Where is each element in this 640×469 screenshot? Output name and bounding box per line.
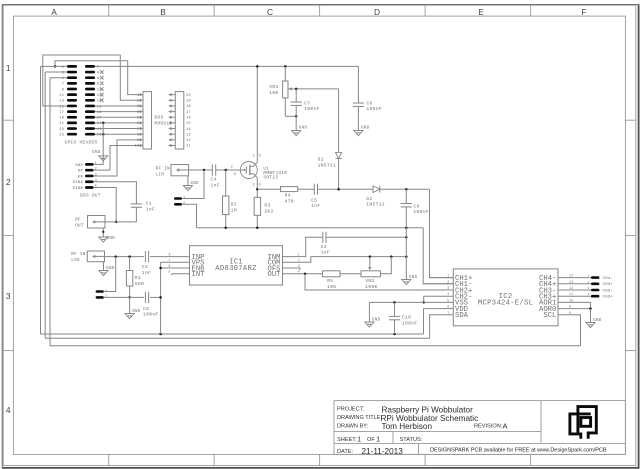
svg-text:OUT: OUT <box>268 271 282 279</box>
svg-text:3: 3 <box>231 166 233 170</box>
svg-text:100nF: 100nF <box>402 320 418 326</box>
svg-text:2: 2 <box>587 281 589 284</box>
svg-text:1nF: 1nF <box>321 250 330 256</box>
svg-text:2K2: 2K2 <box>264 208 273 214</box>
svg-text:VR2: VR2 <box>365 278 374 284</box>
svg-text:DP: DP <box>78 170 84 174</box>
svg-text:100nF: 100nF <box>366 106 382 112</box>
svg-text:RF IN: RF IN <box>71 253 85 257</box>
svg-text:1: 1 <box>6 63 11 73</box>
svg-text:9: 9 <box>137 139 139 143</box>
svg-text:16: 16 <box>186 116 191 120</box>
svg-text:GND: GND <box>372 318 381 322</box>
svg-text:4: 4 <box>6 405 11 415</box>
svg-text:4: 4 <box>298 270 300 274</box>
svg-text:DINA: DINA <box>73 181 84 185</box>
svg-text:GND: GND <box>191 182 200 186</box>
svg-text:GND: GND <box>361 127 370 131</box>
svg-text:7: 7 <box>447 311 449 315</box>
svg-text:A: A <box>503 422 508 431</box>
svg-text:2: 2 <box>6 177 11 187</box>
svg-text:S: S <box>259 184 261 188</box>
svg-text:7: 7 <box>169 258 171 262</box>
svg-text:D: D <box>259 155 261 159</box>
svg-text:D: D <box>374 7 380 17</box>
svg-text:STATUS:: STATUS: <box>400 437 423 443</box>
svg-text:MCP3424-E/SL: MCP3424-E/SL <box>478 300 533 308</box>
svg-text:7: 7 <box>62 83 65 87</box>
svg-text:1: 1 <box>298 253 300 257</box>
svg-text:12: 12 <box>186 139 191 143</box>
svg-text:3: 3 <box>587 287 589 290</box>
svg-text:19: 19 <box>186 100 191 104</box>
svg-text:3: 3 <box>6 291 11 301</box>
svg-text:INT: INT <box>192 271 206 279</box>
svg-text:11: 11 <box>186 145 191 149</box>
svg-text:1N5711: 1N5711 <box>318 162 337 168</box>
svg-text:18: 18 <box>186 105 191 109</box>
svg-text:5: 5 <box>137 116 139 120</box>
svg-text:RF: RF <box>75 219 81 223</box>
svg-text:C5: C5 <box>311 197 317 203</box>
svg-text:RF IN: RF IN <box>156 167 170 171</box>
svg-text:4: 4 <box>97 71 100 75</box>
svg-text:SDA: SDA <box>455 312 469 320</box>
svg-text:8: 8 <box>137 133 139 137</box>
svg-text:DATE:: DATE: <box>337 449 354 455</box>
svg-text:1nF: 1nF <box>142 270 151 276</box>
svg-text:3: 3 <box>137 105 139 109</box>
svg-text:DRAWN BY:: DRAWN BY: <box>337 423 369 429</box>
svg-text:DESIGNSPARK PCB available for: DESIGNSPARK PCB available for FREE at ww… <box>430 448 607 454</box>
svg-text:100nF: 100nF <box>413 209 429 215</box>
svg-text:LIN: LIN <box>156 173 165 177</box>
svg-text:8: 8 <box>569 311 571 315</box>
svg-text:10: 10 <box>569 298 574 302</box>
svg-text:9: 9 <box>62 88 65 92</box>
svg-text:1nF: 1nF <box>211 182 220 188</box>
svg-text:3: 3 <box>298 264 300 268</box>
svg-text:C1: C1 <box>146 201 152 207</box>
svg-text:100K: 100K <box>365 284 377 290</box>
svg-text:E: E <box>478 7 484 17</box>
svg-text:MODULE: MODULE <box>155 122 173 127</box>
svg-text:12: 12 <box>569 286 574 290</box>
svg-text:1N5711: 1N5711 <box>366 202 385 208</box>
svg-text:C3: C3 <box>321 244 327 250</box>
svg-text:GND: GND <box>75 164 83 168</box>
svg-text:B: B <box>160 7 166 17</box>
svg-text:D2: D2 <box>366 196 372 202</box>
svg-text:470: 470 <box>285 198 294 204</box>
svg-text:4: 4 <box>587 293 589 296</box>
svg-text:AD8307ARZ: AD8307ARZ <box>215 265 257 273</box>
svg-text:OF: OF <box>367 437 375 443</box>
svg-text:15: 15 <box>186 122 191 126</box>
svg-text:REVISION:: REVISION: <box>474 423 503 429</box>
svg-text:25: 25 <box>59 134 64 138</box>
svg-text:GPIO HEADER: GPIO HEADER <box>65 141 98 146</box>
svg-text:13: 13 <box>186 133 191 137</box>
svg-text:DINB: DINB <box>73 187 84 191</box>
svg-text:6: 6 <box>137 122 139 126</box>
svg-text:D1: D1 <box>318 157 324 163</box>
svg-text:14: 14 <box>569 274 574 278</box>
svg-text:G: G <box>234 173 236 177</box>
svg-text:R3: R3 <box>264 203 270 209</box>
svg-text:R5: R5 <box>327 278 333 284</box>
svg-text:11: 11 <box>59 94 64 98</box>
svg-text:23: 23 <box>59 128 64 132</box>
svg-text:C8: C8 <box>366 101 372 107</box>
svg-text:C2: C2 <box>142 264 148 270</box>
svg-text:R1: R1 <box>135 275 141 281</box>
svg-text:GND: GND <box>106 267 115 271</box>
svg-text:LOG: LOG <box>71 259 80 263</box>
svg-text:PROJECT:: PROJECT: <box>337 407 364 413</box>
svg-text:5: 5 <box>447 298 449 302</box>
svg-text:GND: GND <box>92 151 101 155</box>
svg-text:2: 2 <box>298 258 300 262</box>
svg-text:EN: EN <box>78 175 83 179</box>
svg-text:1: 1 <box>376 434 380 443</box>
svg-text:1M: 1M <box>231 207 237 213</box>
svg-text:1: 1 <box>447 274 449 278</box>
svg-text:2: 2 <box>253 184 255 188</box>
svg-text:13: 13 <box>59 100 64 104</box>
svg-text:10K: 10K <box>269 90 278 96</box>
svg-text:GND: GND <box>132 310 141 314</box>
svg-text:GND: GND <box>593 319 602 323</box>
svg-text:F: F <box>581 7 586 17</box>
svg-text:3: 3 <box>447 286 449 290</box>
svg-text:R4: R4 <box>285 193 291 199</box>
svg-text:2: 2 <box>447 280 449 284</box>
svg-text:DRAWING TITLE:: DRAWING TITLE: <box>337 415 383 421</box>
svg-text:8: 8 <box>97 83 100 87</box>
svg-text:GND: GND <box>409 276 418 280</box>
svg-text:10K: 10K <box>327 284 336 290</box>
svg-text:5: 5 <box>169 270 171 274</box>
svg-text:VR1: VR1 <box>269 84 278 90</box>
svg-text:11: 11 <box>569 292 574 296</box>
svg-text:6: 6 <box>447 305 449 309</box>
svg-text:CH4+: CH4+ <box>603 283 614 287</box>
svg-text:14: 14 <box>186 128 191 132</box>
svg-text:C4: C4 <box>211 176 217 182</box>
svg-text:R2: R2 <box>231 202 237 208</box>
svg-text:OUT: OUT <box>75 225 84 229</box>
svg-text:CH4-: CH4- <box>603 277 613 281</box>
svg-text:SCL: SCL <box>543 312 556 320</box>
svg-text:6: 6 <box>169 264 171 268</box>
svg-text:A: A <box>51 7 57 17</box>
svg-text:CH3-: CH3- <box>603 289 613 293</box>
svg-text:7: 7 <box>137 128 139 132</box>
svg-text:1: 1 <box>587 275 589 278</box>
svg-text:C7: C7 <box>304 100 310 106</box>
svg-text:9: 9 <box>569 305 571 309</box>
svg-text:DDS OUT: DDS OUT <box>80 193 101 198</box>
svg-text:100nF: 100nF <box>143 312 159 318</box>
svg-text:21-11-2013: 21-11-2013 <box>362 447 404 456</box>
svg-text:1: 1 <box>253 155 255 159</box>
svg-text:Tom Herbison: Tom Herbison <box>382 422 433 431</box>
svg-text:DDS: DDS <box>155 116 164 121</box>
svg-text:20: 20 <box>186 94 191 98</box>
svg-text:17: 17 <box>186 111 191 115</box>
svg-text:GND: GND <box>299 127 308 131</box>
svg-text:6: 6 <box>97 77 100 81</box>
svg-text:100nF: 100nF <box>304 106 320 112</box>
svg-text:1nF: 1nF <box>311 203 320 209</box>
svg-text:21: 21 <box>59 122 64 126</box>
svg-text:8: 8 <box>169 253 171 257</box>
svg-text:2: 2 <box>137 100 139 104</box>
svg-text:C10: C10 <box>402 315 411 321</box>
svg-text:4: 4 <box>137 111 139 115</box>
svg-text:56R: 56R <box>135 281 144 287</box>
svg-text:C: C <box>267 7 273 17</box>
svg-text:SOT23: SOT23 <box>263 176 278 181</box>
svg-text:GND: GND <box>107 237 116 241</box>
svg-text:19: 19 <box>59 117 64 121</box>
svg-text:CH3+: CH3+ <box>603 296 614 300</box>
svg-text:17: 17 <box>59 111 64 115</box>
svg-text:C9: C9 <box>413 203 419 209</box>
svg-text:4: 4 <box>447 292 449 296</box>
svg-text:1: 1 <box>357 434 361 443</box>
svg-text:SHEET:: SHEET: <box>337 437 357 443</box>
svg-text:13: 13 <box>569 280 574 284</box>
svg-text:1nF: 1nF <box>146 207 155 213</box>
svg-text:C6: C6 <box>143 306 149 312</box>
svg-text:1: 1 <box>137 94 139 98</box>
